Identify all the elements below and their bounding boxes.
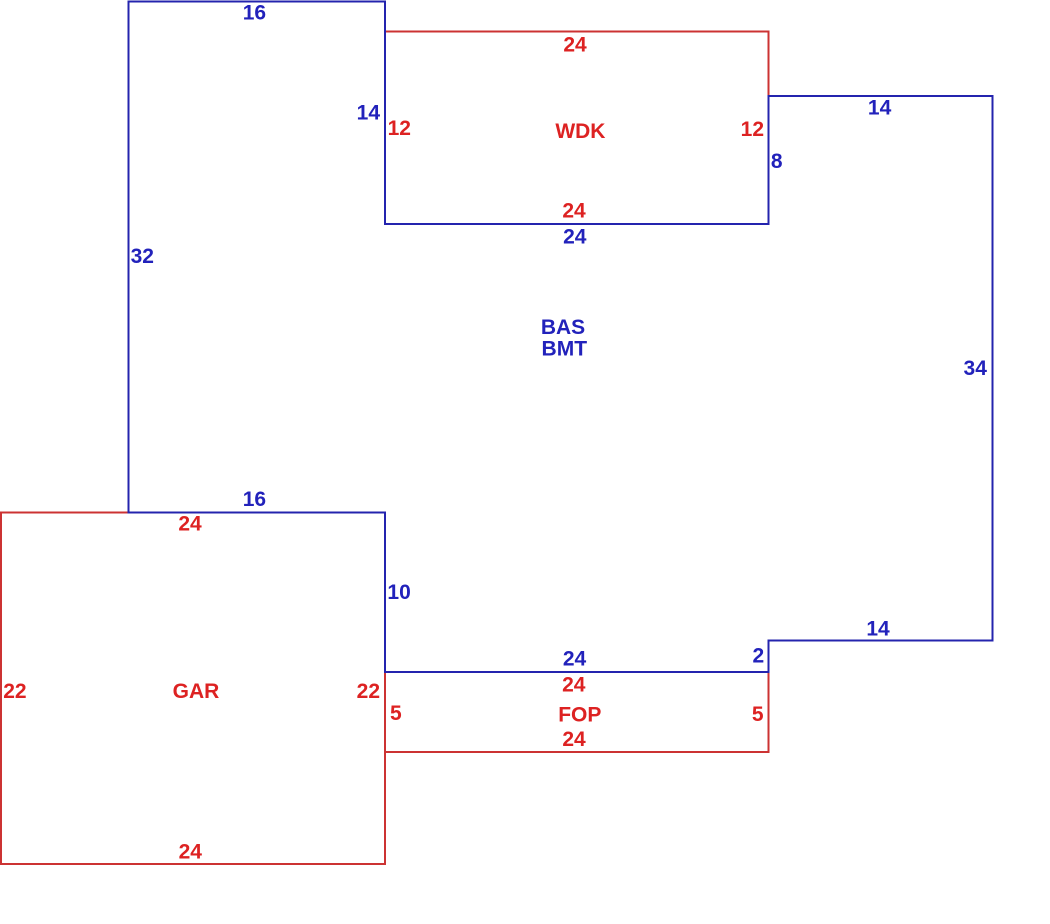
svg-text:12: 12 — [741, 118, 764, 141]
svg-text:24: 24 — [563, 226, 587, 249]
svg-text:GAR: GAR — [173, 680, 220, 703]
svg-text:24: 24 — [562, 673, 586, 696]
svg-text:BAS: BAS — [541, 316, 585, 339]
svg-text:24: 24 — [562, 728, 586, 751]
svg-text:FOP: FOP — [558, 704, 601, 727]
svg-text:16: 16 — [243, 1, 266, 24]
svg-text:10: 10 — [387, 581, 410, 604]
garage GAR outline — [1, 513, 385, 865]
svg-text:14: 14 — [868, 96, 892, 119]
svg-text:BMT: BMT — [542, 337, 588, 360]
svg-text:14: 14 — [866, 617, 890, 640]
svg-text:8: 8 — [771, 150, 783, 173]
svg-text:24: 24 — [178, 513, 202, 536]
svg-text:24: 24 — [562, 199, 586, 222]
svg-text:5: 5 — [752, 703, 764, 726]
wood deck WDK outline — [385, 32, 769, 225]
svg-text:5: 5 — [390, 702, 402, 725]
svg-text:24: 24 — [563, 33, 587, 56]
svg-text:34: 34 — [964, 357, 988, 380]
svg-text:24: 24 — [179, 841, 203, 864]
svg-text:12: 12 — [388, 117, 411, 140]
svg-text:WDK: WDK — [555, 120, 605, 143]
svg-text:22: 22 — [3, 680, 26, 703]
svg-text:2: 2 — [753, 645, 765, 668]
front open porch FOP outline — [385, 672, 769, 752]
basement BAS/BMT outline — [129, 2, 993, 673]
svg-text:24: 24 — [563, 647, 587, 670]
svg-text:22: 22 — [357, 680, 380, 703]
svg-text:32: 32 — [131, 245, 154, 268]
svg-text:14: 14 — [357, 102, 381, 125]
svg-text:16: 16 — [243, 488, 266, 511]
